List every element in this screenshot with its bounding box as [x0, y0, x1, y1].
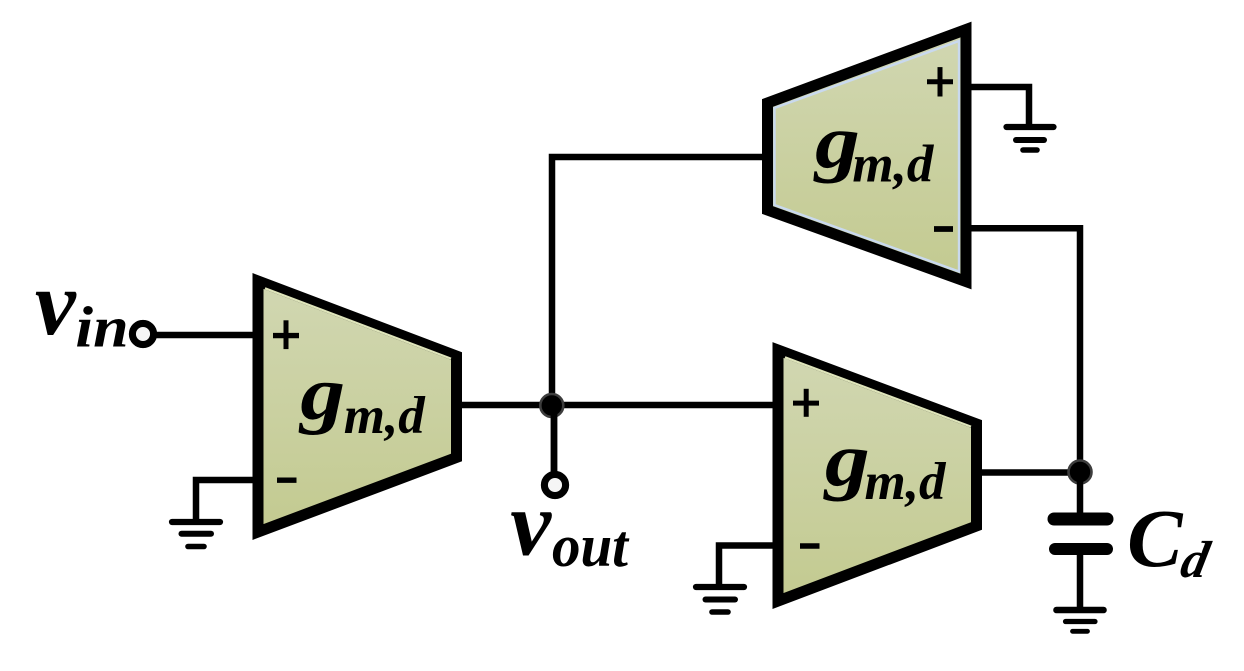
ground (U2 noninverting input) — [1007, 127, 1054, 150]
wire (U3 inverting input to ground) — [719, 546, 778, 588]
pin - (U1 inverting input mark) — [277, 478, 297, 483]
pin - (U3 inverting input mark) — [800, 543, 820, 548]
pin + (U3 noninverting input mark) — [793, 401, 819, 406]
svg-text:C: C — [1127, 492, 1184, 584]
pin + (U1 noninverting input mark) — [273, 333, 299, 338]
trapezoid body U3 — [778, 350, 977, 601]
svg-text:v: v — [35, 252, 77, 354]
svg-text:v: v — [510, 473, 552, 575]
terminal v_in (open circle) — [132, 323, 153, 344]
node junction at Cd — [1069, 461, 1092, 484]
op-amp U2 (top feedback transconductor, mirrored) — [768, 30, 967, 282]
ground (U1 inverting input) — [172, 480, 258, 547]
wire (node to capacitor) — [1077, 472, 1084, 515]
wire (U2 noninverting input to ground) — [966, 87, 1029, 127]
svg-text:g: g — [298, 351, 345, 435]
node junction at v_out — [540, 394, 563, 417]
value label g_m,d (U3) — [823, 417, 870, 501]
svg-text:in: in — [75, 296, 128, 360]
op-amp U3 (bottom transconductor) — [778, 350, 977, 601]
ground (U3 inverting input) — [696, 587, 744, 612]
wire (U1 output to U3 input, node v_out) — [456, 402, 782, 409]
ground (below capacitor) — [1057, 610, 1104, 631]
op-amp U1 (left transconductor) — [258, 281, 457, 532]
value label g_m,d (U1) — [298, 351, 345, 435]
trapezoid body U1 — [258, 281, 457, 532]
value label g_m,d (U2) — [813, 99, 860, 183]
wire (U3 output to node Cd) — [976, 469, 1080, 476]
svg-text:m,d: m,d — [852, 136, 934, 194]
pin - (U2 inverting input mark) — [934, 226, 953, 232]
pin + (U2 noninverting input mark) — [927, 79, 953, 84]
capacitor Cd top plate — [1054, 513, 1107, 526]
capacitor Cd bottom plate — [1055, 543, 1107, 555]
wire (capacitor to ground) — [1077, 555, 1084, 608]
svg-text:out: out — [552, 513, 630, 580]
svg-text:m,d: m,d — [344, 387, 426, 445]
wire v_out stub — [551, 405, 558, 472]
terminal v_out (open circle) — [544, 474, 565, 495]
svg-text:g: g — [823, 417, 870, 501]
wire v_in lead — [155, 332, 262, 339]
svg-text:m,d: m,d — [865, 453, 947, 511]
wire (U2 inverting input to node Cd) — [966, 228, 1080, 475]
wire (feedback up to U2 output) — [552, 157, 768, 405]
trapezoid body U2 — [768, 30, 967, 282]
